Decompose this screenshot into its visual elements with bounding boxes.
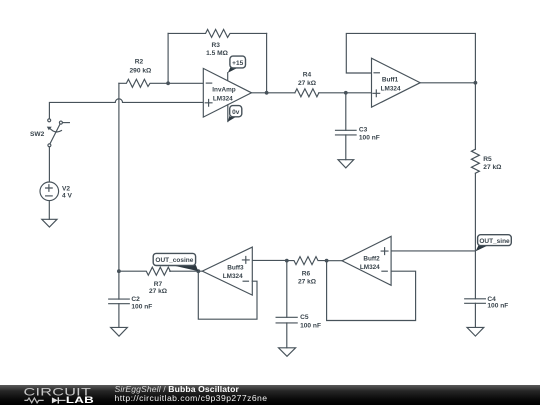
wire: Buff1 output to right vertical rail [420,82,475,84]
op-amp Buff3 LM324 (mirrored) [202,247,252,295]
node: junction of R6, C5, Buff3 + input [285,259,289,263]
wire: long vertical from R2 left end down to R7/C2 node [118,83,120,271]
ground (below C3) [338,160,354,168]
wire: R4 to Buff1 non-inverting input [319,92,372,94]
capacitor C4 100 nF [465,296,509,328]
wire: Buff2 non-inverting input to OUT_sine node [391,250,475,252]
resistor R6 27 kΩ (horizontal) [287,257,327,286]
capacitor C2 100 nF [109,271,153,327]
op-amp U1 InvAmp LM324 [203,68,251,117]
ground (below C5) [279,348,296,357]
wire: switch to V2 [48,147,50,182]
capacitor C3 100 nF [336,93,380,160]
svg-text:LAB: LAB [66,396,94,405]
wire: V2 to ground [48,201,50,220]
ground (below C4) [467,327,484,336]
wire: Buff2 output to R6 [327,260,342,262]
wire: Buff3 non-inverting input to C5 node [252,259,286,261]
CircuitLab logo wordmark [24,385,95,405]
net flag OUT_sine [476,235,512,252]
resistor R5 27 kΩ (vertical) [471,149,502,173]
node: junction of R2, R3 at inverting input [166,81,170,85]
wire: InvAmp output to R4 [252,92,295,94]
wire: Buff3 output to R7 [170,270,203,272]
wire: Buff1 feedback loop (output to inverting input) [346,33,475,82]
power flag +15 on InvAmp V+ pin [228,56,246,80]
wire: non-inverting input wire from switch with hop over vertical [49,99,203,119]
resistor R2 290 kΩ (horizontal, into inverting input) [119,59,203,88]
net flag OUT_cosine [153,253,198,271]
node: Buff2 output / feedback junction [325,259,329,263]
resistor R7 27 kΩ (horizontal) [119,267,170,295]
wire: Buff3 feedback loop (inverting input to output node) [198,271,257,319]
wire: R3 right vertical down to InvAmp output node [266,33,268,92]
resistor R4 27 kΩ (horizontal) [295,72,319,97]
node: Buff1 output junction [474,81,478,85]
svg-text:http://circuitlab.com/c9p39p27: http://circuitlab.com/c9p39p277z6ne [115,393,268,403]
node: junction of output wire and R3 feedback [265,91,269,95]
ground (below C2) [111,327,128,336]
power flag 0v on InvAmp V- pin [228,105,242,122]
node: junction of C3 on Buff1 + input wire [344,91,348,95]
wire: R3 left vertical from top feedback down to inverting input node [167,33,169,83]
node: junction of R7, C2 and left vertical [117,269,121,273]
op-amp Buff1 LM324 [372,58,421,107]
switch SW2 [30,119,69,147]
footer brand bar [0,385,540,405]
footer title text [115,384,268,403]
ground (below V2) [42,219,57,227]
wire: R5 down to OUT_sine node and C4 [474,173,476,298]
wire: right rail from output down to R5 [474,83,476,149]
op-amp Buff2 LM324 (mirrored) [342,236,391,285]
resistor R3 1.5 MΩ (horizontal, top feedback) [168,29,267,57]
node: Buff3 output / OUT_cosine junction [196,269,200,273]
wire: Buff2 feedback loop (inverting input to output node) [327,261,416,321]
capacitor C5 100 nF [276,261,321,348]
voltage source V2 4 V [40,182,72,201]
